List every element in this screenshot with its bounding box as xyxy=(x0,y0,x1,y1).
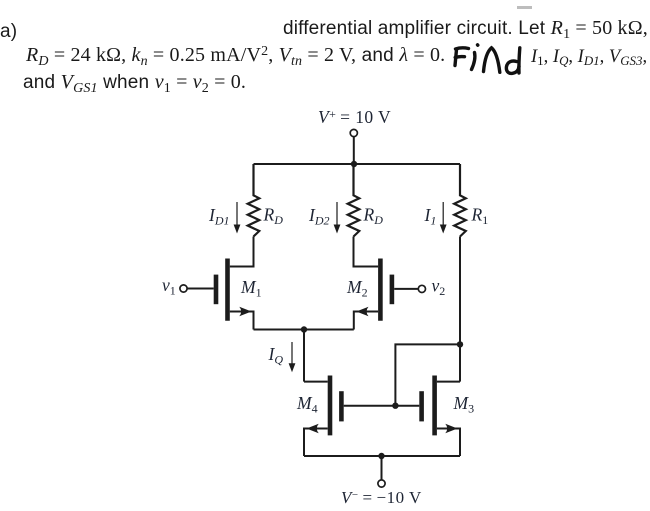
wire tail to M4 drain xyxy=(303,330,305,382)
svg-text:V+ = 10 V: V+ = 10 V xyxy=(318,107,391,127)
svg-text:I1: I1 xyxy=(424,205,437,228)
svg-text:IQ: IQ xyxy=(268,344,284,367)
svg-text:RD: RD xyxy=(263,205,284,228)
transistor M1 xyxy=(216,259,254,330)
text line 3 xyxy=(23,71,246,94)
wire node A to M3 drain xyxy=(459,344,461,381)
V- supply terminal xyxy=(378,456,385,487)
svg-text:ID2: ID2 xyxy=(308,205,330,228)
wire node A to gate rail xyxy=(395,344,460,405)
wire source rail M1-M2 xyxy=(254,329,354,331)
svg-text:RD: RD xyxy=(363,205,384,228)
text line 2 xyxy=(26,44,445,67)
junction node A xyxy=(457,341,463,347)
wire R1 to node A xyxy=(459,237,461,345)
wire gate rail M4-M3 xyxy=(344,405,420,407)
input terminal v2 xyxy=(394,285,425,292)
transistor M3 xyxy=(422,376,460,457)
resistor R1 xyxy=(454,164,466,237)
svg-text:M2: M2 xyxy=(346,277,368,300)
wire RD2 to M2 drain xyxy=(354,237,379,267)
transistor M2 xyxy=(354,259,392,330)
svg-text:V− = −10 V: V− = −10 V xyxy=(341,488,422,507)
text line: item label a) xyxy=(0,21,17,43)
V+ supply terminal xyxy=(350,129,357,164)
wire bottom rail xyxy=(304,455,460,457)
current arrow ID1 xyxy=(234,202,241,234)
input terminal v1 xyxy=(180,285,214,292)
faint scan artifact dash xyxy=(517,6,532,9)
transistor M4 xyxy=(304,376,341,457)
text line 1 xyxy=(283,17,648,40)
svg-text:M1: M1 xyxy=(240,277,262,300)
junction gate rail node xyxy=(392,403,398,409)
current arrow IQ xyxy=(289,342,296,372)
wire RD1 to M1 drain xyxy=(230,237,254,267)
svg-text:ID1: ID1 xyxy=(208,205,230,228)
current arrow ID2 xyxy=(334,202,341,234)
junction tail node xyxy=(301,326,307,332)
resistor RD (left) xyxy=(248,164,260,237)
resistor RD (middle) xyxy=(348,164,360,237)
text: find list I1, IQ, ID1, VGS3 xyxy=(531,47,647,68)
svg-text:v1: v1 xyxy=(162,275,176,298)
junction V+ node xyxy=(351,161,357,167)
handwritten word Find xyxy=(455,45,520,74)
top rail wire xyxy=(254,163,461,165)
svg-text:M3: M3 xyxy=(453,393,475,416)
svg-text:R1: R1 xyxy=(471,205,489,228)
svg-text:v2: v2 xyxy=(432,276,446,299)
current arrow I1 xyxy=(440,202,447,234)
junction V- node xyxy=(378,453,384,459)
svg-text:M4: M4 xyxy=(296,393,318,416)
